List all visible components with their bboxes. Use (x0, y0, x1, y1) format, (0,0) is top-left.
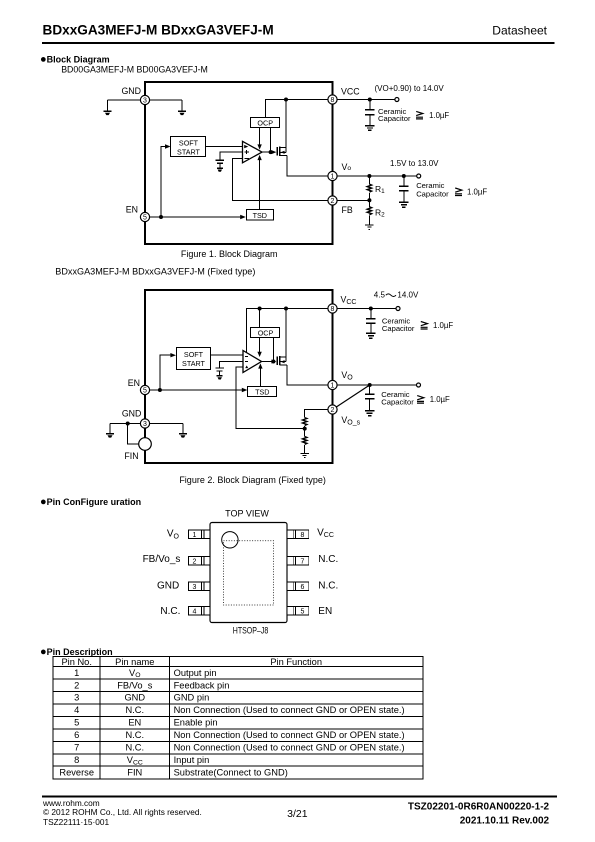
OCP block fig1 (251, 118, 280, 128)
pin 5 EN fig2 (140, 385, 149, 394)
junction rail OCP fig2 (258, 307, 262, 311)
wire GND rail fig1 (108, 99, 183, 101)
wire OCP arrow to op-amp fig2 (259, 338, 261, 355)
arrowhead TSD up fig2 (258, 363, 262, 368)
svg-text:5: 5 (143, 387, 147, 394)
svg-text:Datasheet: Datasheet (492, 24, 547, 38)
wire EN fig1 (145, 216, 243, 218)
label ceramic capacitor C4 (381, 390, 414, 407)
junction divider tap fig2 (303, 427, 307, 431)
table row Reverse (59, 767, 287, 777)
svg-text:Non Connection (Used to connec: Non Connection (Used to connect GND or O… (174, 743, 405, 753)
svg-text:1.0µF: 1.0µF (433, 321, 453, 330)
svg-text:1.0µF: 1.0µF (430, 395, 450, 404)
ground internal right of pin3 fig2 (179, 424, 187, 438)
svg-text:(VO+0.90) to 14.0V: (VO+0.90) to 14.0V (375, 84, 445, 93)
capacitor C2 ceramic Vo fig1 (399, 176, 408, 207)
svg-text:Figure 1. Block Diagram: Figure 1. Block Diagram (181, 249, 278, 259)
svg-text:TSD: TSD (255, 387, 269, 396)
label C4 value (417, 395, 450, 404)
svg-text:8: 8 (301, 532, 305, 539)
svg-text:HTSOP–J8: HTSOP–J8 (233, 626, 269, 637)
pin 3 GND fig2 (140, 419, 149, 428)
ground Vref fig1 (217, 168, 223, 172)
svg-text:Reverse: Reverse (59, 767, 94, 777)
IC boundary box fig1 (145, 82, 333, 244)
wire EN junction to soft start fig2 (160, 355, 173, 390)
label C3 value (421, 321, 454, 330)
svg-text:TSZ22111·15·001: TSZ22111·15·001 (43, 817, 109, 827)
svg-text:EN: EN (318, 606, 332, 617)
junction VCC cap fig2 (369, 307, 373, 311)
junction VCC rail fig1 (284, 98, 288, 102)
capacitor C3 ceramic VCC fig2 (366, 309, 375, 339)
svg-text:2: 2 (193, 558, 197, 565)
svg-text:EN: EN (126, 204, 138, 214)
table row pin 6 (74, 730, 404, 740)
svg-text:6: 6 (301, 584, 305, 591)
junction EN node fig1 (159, 215, 163, 219)
svg-text:4: 4 (74, 705, 79, 715)
svg-text:2: 2 (331, 198, 335, 205)
table row pin 8 (74, 755, 209, 766)
svg-text:Output pin: Output pin (174, 668, 217, 678)
junction R1 top fig1 (367, 174, 371, 178)
svg-text:Capacitor: Capacitor (416, 190, 449, 199)
svg-text:TSD: TSD (253, 211, 267, 220)
svg-text:Pin Function: Pin Function (270, 657, 322, 667)
svg-text:●Pin ConFigure uration: ●Pin ConFigure uration (40, 496, 141, 508)
junction op-amp output fig1 (269, 150, 273, 154)
OCP block fig2 (251, 328, 280, 338)
ground divider fig2 (301, 453, 309, 457)
wire OCP right branch fig1 (270, 128, 272, 153)
svg-text:FIN: FIN (127, 767, 142, 777)
svg-text:6: 6 (74, 730, 79, 740)
label ceramic capacitor C1 (378, 107, 411, 123)
transistor Q1 pass PMOS fig1 (277, 147, 287, 156)
table row pin 1 (74, 668, 216, 679)
svg-text:FB/Vo_s: FB/Vo_s (143, 554, 181, 565)
svg-text:N.C.: N.C. (318, 581, 338, 592)
soft start block U1 (171, 137, 206, 157)
TSD block fig1 (247, 210, 274, 221)
terminal Vo output fig2 (417, 383, 421, 387)
svg-text:3: 3 (74, 693, 79, 703)
table row pin 3 (74, 693, 209, 703)
svg-text:OCP: OCP (258, 328, 274, 337)
wire soft start to op-amp fig2 (211, 354, 243, 356)
svg-text:Capacitor: Capacitor (381, 398, 414, 407)
pin 2 FB fig1 (328, 196, 337, 205)
table row pin 7 (74, 743, 404, 753)
svg-text:FB/Vo_s: FB/Vo_s (117, 680, 152, 690)
svg-text:GND pin: GND pin (174, 693, 210, 703)
svg-text:© 2012 ROHM Co., Ltd. All righ: © 2012 ROHM Co., Ltd. All rights reserve… (43, 807, 202, 817)
capacitor C4 ceramic Vo fig2 (365, 385, 374, 416)
wire VCC to Q1 source fig1 (285, 100, 287, 148)
table row pin 5 (74, 718, 217, 728)
ground below R2 fig1 (365, 225, 373, 229)
label VCC range fig2 (374, 291, 419, 300)
svg-text:14.0V: 14.0V (397, 291, 419, 300)
footer left links (42, 798, 202, 827)
pin FIN substrate fig2 (139, 438, 152, 451)
wire Q1 drain to pin1 fig1 (287, 156, 333, 176)
package body HTSOP-J8 (210, 523, 287, 623)
svg-text:Capacitor: Capacitor (378, 114, 411, 123)
label C1 value (416, 111, 449, 120)
svg-text:N.C.: N.C. (125, 730, 144, 740)
VCC rail fig2 (246, 309, 332, 353)
svg-text:1.5V to 13.0V: 1.5V to 13.0V (390, 159, 439, 168)
svg-text:FIN: FIN (124, 451, 138, 461)
ground left of pin3 (103, 100, 111, 115)
ground Vref fig2 (217, 376, 223, 380)
pin 4 lead (188, 607, 210, 616)
wire VCC to Q2 source fig2 (285, 309, 287, 358)
svg-text:5: 5 (301, 609, 305, 616)
svg-text:3: 3 (143, 421, 147, 428)
svg-text:TOP VIEW: TOP VIEW (225, 508, 269, 518)
transistor Q2 pass PMOS fig2 (277, 356, 287, 365)
svg-text:Capacitor: Capacitor (382, 324, 415, 333)
pin1 marker circle (222, 532, 238, 548)
svg-text:Substrate(Connect to GND): Substrate(Connect to GND) (174, 767, 288, 777)
junction VCC cap fig1 (368, 98, 372, 102)
svg-text:Pin name: Pin name (115, 657, 154, 667)
ground left of pin3 fig2 (106, 424, 114, 438)
arrowhead at gate fig1 (271, 150, 276, 154)
wire battery to ground (219, 163, 221, 168)
arrowhead OCP down fig2 (257, 352, 261, 357)
svg-text:5: 5 (74, 718, 79, 728)
label C2 value (455, 187, 487, 196)
table grid (53, 657, 423, 779)
junction FB divider fig1 (367, 198, 371, 202)
svg-text:GND: GND (124, 693, 145, 703)
wire EN fig2 (145, 389, 245, 391)
arrowhead into SOFT START fig2 (170, 353, 176, 357)
terminal VCC input fig1 (395, 98, 399, 102)
table row pin 2 (74, 680, 229, 690)
svg-text:N.C.: N.C. (318, 554, 338, 565)
table row pin 4 (74, 705, 404, 715)
svg-text:Enable pin: Enable pin (174, 718, 218, 728)
junction Vo cap fig1 (402, 174, 406, 178)
svg-text:1.0µF: 1.0µF (467, 187, 487, 196)
svg-text:1: 1 (331, 382, 335, 389)
svg-text:7: 7 (74, 743, 79, 753)
svg-text:1: 1 (193, 532, 197, 539)
svg-text:1: 1 (74, 668, 79, 678)
svg-text:3: 3 (143, 97, 147, 104)
arrowhead at gate fig2 (271, 360, 276, 364)
svg-text:Feedback pin: Feedback pin (174, 680, 230, 690)
svg-text:N.C.: N.C. (125, 743, 144, 753)
exposed pad dashed (224, 541, 274, 605)
svg-text:Pin No.: Pin No. (61, 657, 92, 667)
svg-text:START: START (182, 359, 206, 368)
wire battery to ground fig2 (219, 371, 221, 376)
wire OCP arrow to op-amp fig1 (259, 128, 261, 147)
arrowhead OCP down (257, 144, 261, 149)
svg-text:VCC: VCC (341, 87, 360, 97)
junction rail Q2 fig2 (284, 307, 288, 311)
wire FB external fig1 (337, 200, 369, 202)
soft start block U2 (177, 348, 211, 370)
Vref battery fig1 (216, 160, 224, 163)
op-amp error amplifier fig2 (243, 351, 262, 373)
footer rule (42, 795, 557, 797)
wire FB feedback fig2 (236, 367, 305, 429)
wire Vref input fig2 (220, 362, 243, 368)
svg-text:N.C.: N.C. (125, 705, 144, 715)
TSD block fig2 (248, 387, 277, 397)
Vref battery fig2 (216, 368, 224, 371)
header rule (42, 42, 554, 44)
resistor R2 fig1 (367, 200, 371, 224)
wire FB feedback fig1 (233, 159, 333, 201)
op-amp error amplifier fig1 (243, 141, 263, 163)
pin 2 lead (188, 557, 210, 566)
wire Vo external fig1 (337, 175, 417, 177)
wire VCC external fig2 (337, 308, 396, 310)
wire divider to ground fig2 (304, 445, 306, 453)
header title (43, 23, 548, 38)
svg-text:7: 7 (301, 558, 305, 565)
svg-text:3: 3 (193, 584, 197, 591)
junction op-amp output fig2 (271, 360, 275, 364)
arrowhead into SOFT START (165, 144, 171, 148)
svg-text:8: 8 (331, 306, 335, 313)
wire VCC external fig1 (337, 99, 395, 101)
IC boundary box fig2 (145, 290, 333, 463)
wire Vo external fig2 (337, 384, 416, 386)
svg-text:1.0µF: 1.0µF (429, 111, 449, 120)
divider wire from pin2 fig2 (305, 410, 328, 418)
pin 5 lead (287, 607, 309, 616)
pin 2 Vo_s fig2 (328, 405, 337, 414)
svg-text:8: 8 (331, 97, 335, 104)
terminal VCC input fig2 (396, 307, 400, 311)
pin 6 lead (287, 582, 309, 591)
label ceramic capacitor C2 (416, 181, 449, 199)
svg-text:TSZ02201-0R6R0AN00220-1-2: TSZ02201-0R6R0AN00220-1-2 (408, 801, 550, 812)
pin 1 lead (188, 530, 210, 539)
svg-text:START: START (177, 147, 201, 156)
arrowhead into TSD (240, 215, 246, 219)
resistor divider upper fig2 (303, 418, 307, 426)
svg-text:Input pin: Input pin (174, 755, 210, 765)
pin 1 Vo fig2 (328, 380, 337, 389)
svg-text:4.5: 4.5 (374, 291, 386, 300)
wire diagonal Vo_s sense fig2 (336, 385, 369, 407)
pin 5 EN fig1 (140, 212, 149, 221)
svg-text:2: 2 (74, 680, 79, 690)
wire rail to OCP fig2 (259, 309, 261, 328)
svg-text:OCP: OCP (257, 118, 273, 127)
label ceramic capacitor C3 (382, 316, 415, 333)
wire Vref input fig1 (220, 152, 243, 160)
svg-text:2: 2 (331, 407, 335, 414)
wire Q2 drain to pin1 fig2 (287, 365, 333, 385)
pin 8 lead (287, 530, 309, 539)
svg-text:BDxxGA3MEFJ-M BDxxGA3VEFJ-M: BDxxGA3MEFJ-M BDxxGA3VEFJ-M (43, 23, 274, 38)
svg-text:EN: EN (128, 378, 140, 388)
svg-text:5: 5 (143, 214, 147, 221)
wire GND rail fig2 (110, 423, 183, 425)
wire TSD arrow to op-amp fig2 (259, 366, 261, 387)
wire TSD arrow to op-amp fig1 (259, 158, 261, 210)
pin 7 lead (287, 557, 309, 566)
wire OCP right branch fig2 (272, 338, 274, 362)
wire EN to soft start fig1 (161, 147, 168, 218)
resistor R1 fig1 (367, 176, 371, 200)
resistor divider lower fig2 (303, 437, 307, 445)
svg-text:SOFT: SOFT (179, 139, 199, 148)
svg-text:Non Connection (Used to connec: Non Connection (Used to connect GND or O… (174, 705, 405, 715)
arrowhead into TSD fig2 (242, 388, 248, 392)
svg-text:Non Connection (Used to connec: Non Connection (Used to connect GND or O… (174, 730, 405, 740)
svg-text:N.C.: N.C. (160, 606, 180, 617)
pin 8 VCC fig2 (328, 304, 337, 313)
svg-text:BDxxGA3MEFJ-M BDxxGA3VEFJ-M (F: BDxxGA3MEFJ-M BDxxGA3VEFJ-M (Fixed type) (55, 266, 255, 276)
wire OCP to VCC rail fig1 (266, 100, 333, 119)
svg-text:Figure 2. Block Diagram (Fixed: Figure 2. Block Diagram (Fixed type) (179, 475, 326, 485)
svg-text:3/21: 3/21 (287, 808, 308, 820)
wire op-amp output to gate fig1 (262, 151, 274, 153)
pin 3 lead (188, 582, 210, 591)
pin 3 GND fig1 (140, 95, 149, 104)
terminal Vo output fig1 (417, 174, 421, 178)
svg-text:FB: FB (342, 205, 353, 215)
pin 8 VCC fig1 (328, 95, 337, 104)
wire soft start to op-amp (206, 146, 243, 148)
svg-text:SOFT: SOFT (184, 350, 204, 359)
junction EN node fig2 (158, 388, 162, 392)
wire divider middle fig2 (304, 426, 306, 436)
svg-text:EN: EN (128, 718, 141, 728)
svg-text:2021.10.11 Rev.002: 2021.10.11 Rev.002 (460, 815, 550, 826)
junction Vo cap fig2 (368, 383, 372, 387)
ground internal right of pin3 (178, 100, 186, 115)
junction GND FIN fig2 (126, 422, 130, 426)
svg-text:GND: GND (157, 581, 179, 592)
svg-text:1: 1 (331, 173, 335, 180)
pin 1 Vo fig1 (328, 171, 337, 180)
wire FIN connection fig2 (128, 424, 139, 444)
svg-text:8: 8 (74, 755, 79, 765)
table header row (61, 657, 322, 667)
svg-text:4: 4 (193, 609, 197, 616)
arrowhead TSD up (257, 155, 261, 160)
wire op-amp output to gate fig2 (262, 361, 274, 363)
svg-text:GND: GND (121, 86, 141, 96)
svg-text:GND: GND (122, 409, 142, 419)
capacitor C1 ceramic VCC fig1 (365, 100, 374, 131)
svg-text:Ceramic: Ceramic (416, 181, 444, 190)
svg-text:BD00GA3MEFJ-M BD00GA3VEFJ-M: BD00GA3MEFJ-M BD00GA3VEFJ-M (61, 64, 208, 74)
